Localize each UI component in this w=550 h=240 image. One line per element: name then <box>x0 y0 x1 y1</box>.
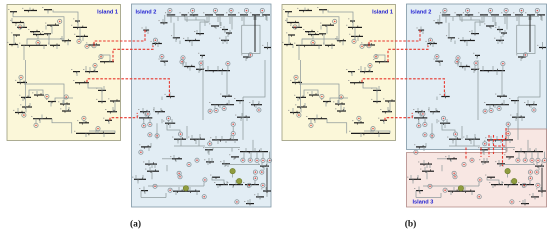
wire w128 <box>151 44 153 46</box>
wire w14 <box>354 27 356 36</box>
bus 68 number label <box>495 93 496 96</box>
wire w88 <box>470 139 472 144</box>
wire w88 <box>195 139 197 144</box>
wire w90 <box>492 140 494 144</box>
generator G50 <box>428 184 432 188</box>
bus 41 number label <box>188 11 189 14</box>
wire w113 <box>185 190 187 192</box>
bus 98 <box>246 203 254 205</box>
bus 19 <box>375 61 389 63</box>
wire w106 <box>151 164 153 168</box>
wire w139 <box>265 17 267 20</box>
bus 81 <box>172 158 182 160</box>
generator G24 <box>456 56 460 60</box>
tie-line T2 <box>113 46 153 62</box>
wire w111 <box>143 187 145 191</box>
wire w222 <box>428 107 430 112</box>
wire w226 <box>444 92 446 97</box>
bus 21 <box>21 96 31 98</box>
wire w113 <box>460 190 462 192</box>
wire w50 <box>219 15 221 26</box>
bus 92 number label <box>210 174 211 177</box>
bus 91 number label <box>518 181 519 184</box>
wire w228 <box>23 45 25 60</box>
generator G60 <box>536 183 540 187</box>
generator G58 <box>260 170 264 174</box>
wire w86 <box>180 136 182 139</box>
bus 51 number label <box>151 40 152 43</box>
bus 86 number label <box>139 187 140 190</box>
wire w48 <box>460 15 480 26</box>
tie-line V8 <box>494 145 506 147</box>
wire w211 <box>532 193 534 197</box>
bus 37 number label <box>103 117 104 120</box>
generator G29 <box>214 108 218 112</box>
bus 3 <box>44 9 52 11</box>
wire w84 <box>431 123 433 139</box>
generator G21 <box>260 8 264 12</box>
generator G16 <box>168 8 172 12</box>
bus 87 number label <box>446 188 447 191</box>
bus 15 <box>75 20 80 22</box>
wire w140 <box>450 38 452 42</box>
wire w172 <box>370 129 372 133</box>
generator G2 <box>293 25 297 29</box>
wire w13 <box>352 21 354 27</box>
wire w200 <box>450 191 452 195</box>
bus 61 <box>160 60 168 62</box>
wire w239 <box>161 119 163 123</box>
wire w131 <box>177 17 179 21</box>
wire w160 <box>22 97 24 101</box>
wire w43 <box>261 13 263 15</box>
wire w225 <box>436 97 438 101</box>
wire w39 <box>467 13 469 15</box>
wire w204 <box>515 181 517 185</box>
wire w235 <box>500 140 502 143</box>
wire w80 <box>424 118 426 123</box>
bus 23 <box>48 101 56 103</box>
wire w53 <box>225 36 227 40</box>
bus 8 number label <box>11 31 12 34</box>
wire w150 <box>523 53 525 57</box>
generator G3 <box>36 41 40 45</box>
bus 66 <box>511 100 519 102</box>
wire w17 <box>300 83 302 98</box>
wire w60 <box>154 42 156 43</box>
wire w141 <box>179 41 181 45</box>
bus 43 <box>491 14 499 16</box>
wire w138 <box>253 17 255 20</box>
wire w23 <box>101 55 110 62</box>
wire w26 <box>114 101 116 112</box>
generator G40 <box>148 133 152 137</box>
generator G49 <box>543 158 547 162</box>
wire w124 <box>534 197 536 200</box>
bus 11 number label <box>282 41 283 44</box>
wire w178 <box>482 66 484 71</box>
wire w193 <box>148 160 150 164</box>
bus 56 <box>475 54 480 56</box>
wire w213 <box>416 197 441 199</box>
bus 36 <box>79 122 89 124</box>
generator G46 <box>248 158 252 162</box>
wire w182 <box>258 101 260 105</box>
wire w202 <box>226 181 228 185</box>
bus 54 number label <box>516 53 517 56</box>
generator G19 <box>504 8 508 12</box>
bus 1 number label <box>283 8 284 11</box>
bus 26 <box>22 106 32 108</box>
generator G7 <box>99 55 103 59</box>
wire w108 <box>417 175 419 179</box>
bus 21 number label <box>294 94 295 97</box>
bus 91 number label <box>243 181 244 184</box>
bus 54 <box>243 56 251 58</box>
wire w133 <box>195 17 197 20</box>
bus 57 number label <box>209 22 210 25</box>
svg-text:Island 2: Island 2 <box>136 10 157 16</box>
bus 21 number label <box>19 94 20 97</box>
wire w93 <box>232 136 234 140</box>
bus 68 <box>222 95 232 97</box>
wire w209 <box>261 162 263 166</box>
wire w95 <box>243 152 245 159</box>
wire w61 <box>161 59 163 62</box>
wire w30 <box>316 115 318 119</box>
generator G1 <box>58 19 62 23</box>
bus 54 <box>518 56 526 58</box>
wire w116 <box>212 177 224 184</box>
wire w154 <box>342 41 344 46</box>
wire w27 <box>340 104 342 111</box>
wire w155 <box>27 38 64 40</box>
wire w49 <box>475 15 484 34</box>
wire w172 <box>95 129 97 133</box>
bus 2 <box>299 10 312 12</box>
bus 53 number label <box>469 30 470 33</box>
synchronous condenser SC3 <box>237 178 242 183</box>
bus 85 <box>147 170 159 172</box>
generator G53 <box>478 178 482 182</box>
bus 61 number label <box>434 58 435 61</box>
wire w1 <box>13 12 64 41</box>
wire w29 <box>310 119 312 124</box>
generator G3 <box>311 41 315 45</box>
generator G10 <box>64 95 68 99</box>
wire w24 <box>363 83 377 91</box>
wire w137 <box>241 17 243 21</box>
wire w174 <box>79 36 81 40</box>
bus 70 number label <box>138 108 139 111</box>
wire w191 <box>150 143 152 147</box>
wire w175 <box>147 30 149 34</box>
bus 55 <box>264 47 271 49</box>
wire w94 <box>209 140 211 142</box>
wire w161 <box>311 91 313 95</box>
wire w21 <box>50 102 52 107</box>
wire w125 <box>148 185 204 187</box>
bus 44 <box>503 14 511 16</box>
bus 69 number label <box>249 101 250 104</box>
wire w31 <box>52 119 72 134</box>
bus 80 <box>141 146 151 148</box>
wire w15 <box>357 36 359 41</box>
island 1 region (b) <box>282 5 396 141</box>
wire w238 <box>162 158 172 160</box>
generator G48 <box>536 158 540 162</box>
wire w37 <box>351 72 353 76</box>
wire w21 <box>325 102 327 107</box>
generator G40 <box>423 133 427 137</box>
bus 4 <box>12 22 24 24</box>
wire w66 <box>473 69 475 73</box>
island 2 region (a) <box>132 4 272 207</box>
wire w53 <box>500 36 502 40</box>
wire w83 <box>442 123 455 132</box>
bus 28 number label <box>358 68 359 71</box>
bus 89 <box>491 184 503 186</box>
bus 66 number label <box>234 97 235 100</box>
generator G4 <box>92 44 96 48</box>
vertical bus 255 <box>254 15 256 53</box>
wire w176 <box>437 19 439 23</box>
wire w3 <box>47 10 49 14</box>
bus 81 <box>447 158 457 160</box>
wire w94 <box>484 140 486 142</box>
generator G57 <box>528 170 532 174</box>
bus 84 number label <box>132 176 133 179</box>
bus 23 <box>323 101 331 103</box>
wire w210 <box>265 187 267 191</box>
bus 17 number label <box>349 33 350 36</box>
generator G58 <box>535 170 539 174</box>
wire w171 <box>85 133 87 137</box>
generator G61 <box>522 183 526 187</box>
wire w68 <box>227 66 229 71</box>
bus 59 number label <box>499 29 500 32</box>
bus 8 <box>288 34 295 36</box>
wire w97 <box>256 152 258 159</box>
wire w27 <box>65 104 67 111</box>
wire w165 <box>17 108 19 113</box>
bus 96 number label <box>536 187 537 190</box>
bus 36 <box>354 122 364 124</box>
bus 7 <box>30 31 40 33</box>
generator G55 <box>510 200 514 204</box>
bus 62 number label <box>182 63 183 66</box>
wire w164 <box>29 103 31 107</box>
wire w70 <box>242 97 244 140</box>
generator G25 <box>523 53 527 57</box>
bus 83 <box>481 161 489 163</box>
wire w109 <box>151 171 153 179</box>
wire w105 <box>450 159 452 162</box>
wire w87 <box>177 139 179 143</box>
generator G12 <box>34 123 38 127</box>
bus 51 <box>152 43 162 45</box>
wire w67 <box>221 71 223 75</box>
wire w206 <box>529 181 531 185</box>
wire w156 <box>43 45 45 49</box>
wire w201 <box>492 185 494 188</box>
bus 10 number label <box>317 30 318 33</box>
wire w121 <box>263 166 265 170</box>
bus 57 <box>486 25 494 27</box>
bus 63 <box>196 68 204 70</box>
bus 49 number label <box>434 19 435 22</box>
bus 41 number label <box>463 11 464 14</box>
bus 29 number label <box>71 68 72 71</box>
generator G54 <box>202 195 206 199</box>
bus 16 <box>73 26 87 28</box>
bus 16 number label <box>346 24 347 27</box>
generator G35 <box>483 142 487 146</box>
bus 89 number label <box>489 181 490 184</box>
wire w188 <box>509 140 511 143</box>
svg-text:Island 1: Island 1 <box>372 10 393 16</box>
bus 2 <box>24 10 37 12</box>
bus 88 <box>461 190 475 192</box>
generator G51 <box>452 171 456 175</box>
wire w167 <box>369 68 371 72</box>
bus 79 number label <box>203 146 204 149</box>
bus 96 number label <box>261 187 262 190</box>
wire w78 <box>432 112 434 115</box>
bus 61 number label <box>159 58 160 61</box>
bus 23 number label <box>46 98 47 101</box>
bus 60 <box>496 39 504 41</box>
bus 66 number label <box>509 97 510 100</box>
wire w216 <box>495 22 497 26</box>
wire w135 <box>492 17 494 22</box>
wire w62 <box>457 60 459 67</box>
svg-text:Island 2: Island 2 <box>411 10 432 16</box>
tie-line V5 <box>502 135 504 166</box>
bus 74 number label <box>438 120 439 123</box>
wire w89 <box>199 134 201 139</box>
bus 66 <box>236 100 244 102</box>
generator G5 <box>77 39 81 43</box>
wire w231 <box>473 139 475 146</box>
wire w171 <box>360 133 362 137</box>
wire w193 <box>423 160 425 164</box>
wire w227 <box>474 65 476 69</box>
bus 59 <box>226 32 232 34</box>
generator G26 <box>501 62 505 66</box>
generator G51 <box>177 171 181 175</box>
wire w5 <box>34 32 36 35</box>
generator G47 <box>255 158 259 162</box>
bus 45 <box>240 14 248 16</box>
wire w2 <box>29 8 31 11</box>
wire w137 <box>516 17 518 21</box>
bus 64 number label <box>203 67 204 70</box>
bus 26 number label <box>20 103 21 106</box>
wire w203 <box>507 185 509 188</box>
bus 53 <box>471 33 479 35</box>
generator G46 <box>523 158 527 162</box>
bus 13 number label <box>48 42 49 45</box>
wire w220 <box>497 40 499 44</box>
generator G12 <box>309 123 313 127</box>
bus 62 <box>184 66 195 68</box>
wire w222 <box>153 107 155 112</box>
wire w146 <box>212 148 214 150</box>
generator G11 <box>22 113 26 117</box>
wire w143 <box>462 37 464 41</box>
bus 9 <box>308 34 319 36</box>
wire w227 <box>199 65 201 69</box>
bus 47 <box>537 14 545 16</box>
wire w217 <box>215 26 217 29</box>
bus 67 number label <box>209 101 210 104</box>
wire w159 <box>19 80 21 83</box>
wire w43 <box>536 13 538 15</box>
bus 60 number label <box>219 37 220 40</box>
generator G62 <box>178 175 182 179</box>
bus 13 <box>325 44 335 46</box>
wire w12 <box>53 10 78 21</box>
bus 32 number label <box>371 98 372 101</box>
wire w187 <box>496 136 498 140</box>
wire w157 <box>56 45 58 49</box>
bus 34 <box>107 111 117 113</box>
wire w52 <box>502 33 504 37</box>
bus 61 <box>435 60 443 62</box>
generator G34 <box>231 132 235 136</box>
wire w174 <box>354 36 356 40</box>
tie-line T4 <box>110 113 137 120</box>
wire w93 <box>507 136 509 140</box>
wire w221 <box>501 40 503 44</box>
bus 50 <box>173 37 180 39</box>
tie-line U3 <box>362 79 444 96</box>
bus 81 number label <box>445 155 446 158</box>
wire w154 <box>67 41 69 46</box>
wire w187 <box>221 136 223 140</box>
generator G45 <box>241 158 245 162</box>
wire w14 <box>79 27 81 36</box>
island 1 region (a) <box>7 5 121 141</box>
wire w59 <box>267 42 269 48</box>
wire w158 <box>292 45 294 49</box>
wire w98 <box>537 152 539 159</box>
bus 12 number label <box>19 42 20 45</box>
bus 50 number label <box>446 34 447 37</box>
wire w30 <box>41 115 43 119</box>
wire w120 <box>508 157 510 160</box>
wire w18 <box>25 97 27 107</box>
generator G16 <box>443 8 447 12</box>
generator G4 <box>367 44 371 48</box>
generator G27 <box>199 61 203 65</box>
bus 44 number label <box>501 11 502 14</box>
bus 27 <box>290 112 300 114</box>
bus 22 <box>34 94 44 96</box>
wire w134 <box>206 17 208 23</box>
bus 16 <box>348 26 362 28</box>
bus 79 <box>205 149 213 151</box>
wire w34 <box>89 131 115 133</box>
bus 77 <box>487 139 513 141</box>
wire w45 <box>445 15 447 23</box>
wire w132 <box>186 17 188 22</box>
bus 20 number label <box>290 79 291 82</box>
bus 91 <box>245 184 259 186</box>
generator G6 <box>360 44 364 48</box>
wire w123 <box>524 199 526 204</box>
